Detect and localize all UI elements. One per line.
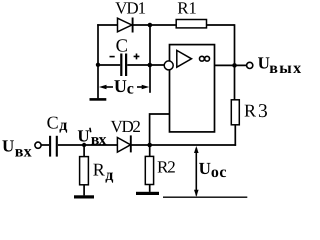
label Uc measure left arrow (99, 85, 113, 89)
label Cd (47, 112, 68, 134)
label minus (C polarity) (110, 56, 115, 58)
label Uvyh (258, 53, 301, 77)
svg-text:3: 3 (258, 101, 268, 122)
wire ground rail to C left plate (98, 64, 120, 66)
ground (below Rd) (74, 195, 94, 198)
label Uc (114, 76, 134, 98)
node junction C left plate (96, 63, 100, 67)
wire non-inverting input (junction up and right into op-amp) (150, 114, 170, 145)
label plus (C polarity) (134, 54, 140, 60)
wire R2 junction down (149, 145, 151, 156)
resistor R1 (176, 20, 206, 28)
wire feedback vertical (top node down past C node, Uc right tick) (149, 24, 151, 93)
diode VD1 (118, 18, 133, 33)
svg-text:U: U (114, 76, 127, 96)
wire top-left horizontal to VD1 anode (97, 24, 117, 26)
svg-text:вх: вх (91, 131, 107, 148)
wire left vertical (VD1 anode to ground) (97, 24, 99, 98)
svg-text:вх: вх (15, 143, 32, 160)
svg-text:R: R (244, 101, 256, 121)
ground (below R2) (136, 192, 159, 195)
op-amp infinity gain symbol (200, 56, 210, 61)
svg-text:вых: вых (269, 60, 301, 77)
svg-text:С: С (47, 112, 59, 132)
label R3 (244, 101, 268, 122)
terminal output (247, 62, 253, 68)
label Uoc (199, 159, 227, 181)
op-amp triangle symbol (177, 50, 192, 67)
wire R1 to right corner (207, 24, 235, 26)
op-amp inverting input circle (164, 61, 173, 70)
resistor Rd (80, 157, 89, 185)
op-amp U1 body (170, 45, 215, 132)
arrow Uoc measure (double-headed) (194, 146, 199, 197)
label Uvh (2, 136, 32, 160)
wire R3 bottom to feedback rail (234, 125, 236, 146)
wire bottom feedback rail (131, 144, 236, 146)
wire VD1 cathode to R1 (133, 24, 177, 26)
capacitor Cd (50, 136, 57, 157)
capacitor C (121, 54, 126, 77)
svg-text:U: U (2, 136, 14, 155)
resistor R2 (145, 156, 153, 184)
svg-text:U: U (258, 53, 270, 72)
resistor R3 (231, 100, 239, 125)
svg-text:R2: R2 (157, 158, 176, 177)
node junction U'vh (Rd tap) (82, 143, 86, 147)
svg-text:C: C (116, 37, 128, 57)
svg-text:U: U (199, 159, 211, 178)
wire op-amp output (215, 64, 247, 66)
svg-text:R: R (93, 159, 105, 179)
ground (left, below C) (90, 98, 107, 101)
node junction VD2 cathode / R2 / non-inv (147, 143, 152, 148)
wire R2 to ground (149, 185, 151, 192)
svg-text:ос: ос (211, 164, 227, 181)
wire Rd to ground (83, 185, 85, 196)
label U'vh (77, 127, 106, 149)
svg-text:д: д (105, 167, 113, 184)
wire input terminal to Cd (41, 144, 49, 146)
svg-text:R1: R1 (177, 0, 197, 17)
terminal input (35, 142, 41, 148)
svg-text:д: д (59, 117, 67, 134)
diode VD2 (117, 135, 130, 152)
svg-text:VD2: VD2 (111, 117, 141, 136)
node junction top (VD1 cathode / C / R1) (148, 23, 153, 28)
label Uc measure right arrow (137, 85, 149, 89)
wire C right plate to op-amp inverting input (127, 64, 164, 66)
svg-text:VD1: VD1 (115, 0, 146, 18)
svg-text:c: c (127, 81, 134, 98)
wire Cd to VD2 anode (58, 144, 118, 146)
node junction C right / feedback (148, 63, 153, 68)
svg-text:U: U (77, 127, 89, 146)
node junction output (232, 63, 237, 68)
baseline reference for Uoc (163, 196, 247, 198)
wire Rd tap down (83, 145, 85, 157)
wire right vertical (R1 corner down to R3) (234, 24, 236, 100)
label Rd (93, 159, 114, 184)
